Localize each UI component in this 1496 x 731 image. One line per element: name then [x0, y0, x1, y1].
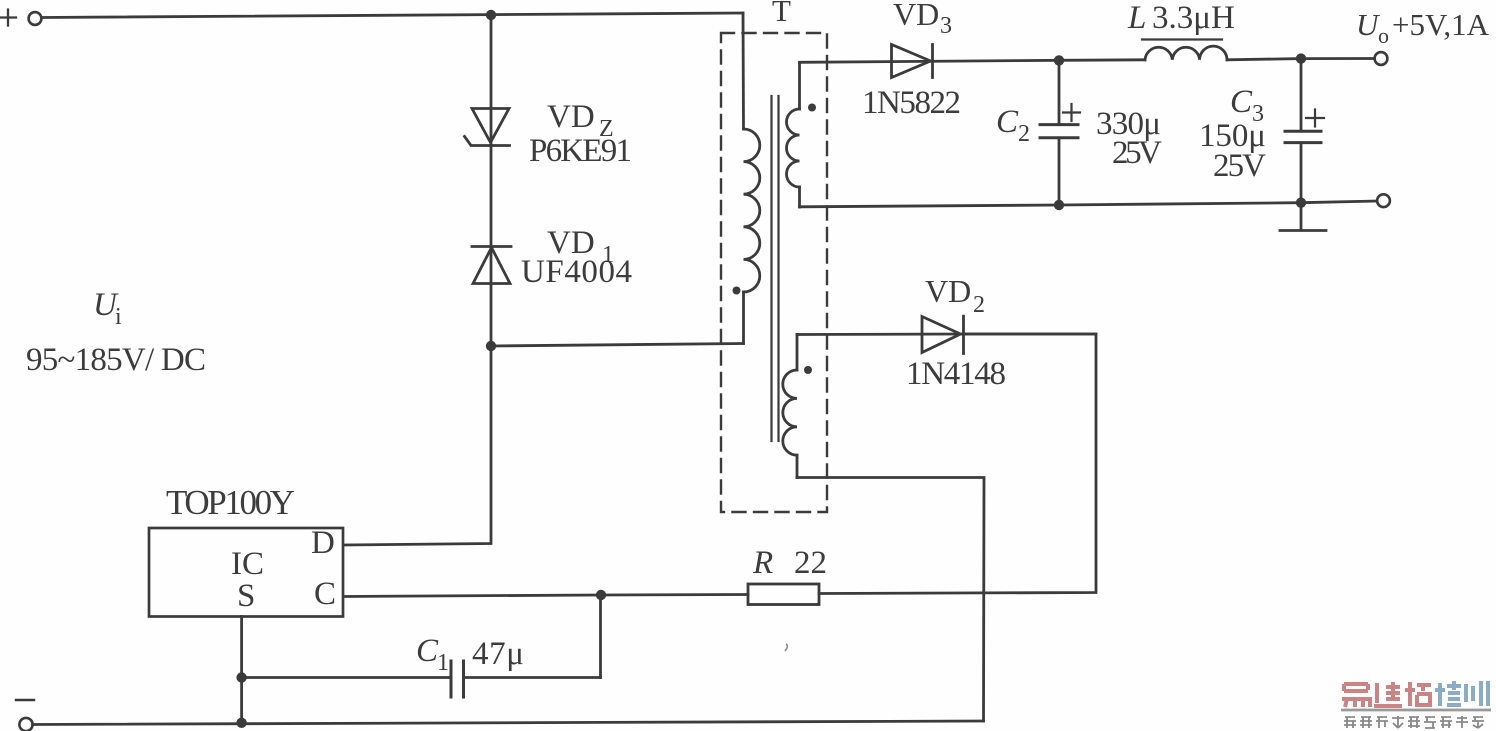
wire to transformer primary bottom: [491, 344, 744, 347]
node top junction: [486, 10, 496, 20]
watermark slogan row: [1344, 716, 1484, 728]
svg-text:P6KE91: P6KE91: [529, 133, 632, 169]
svg-text:25V: 25V: [1213, 148, 1266, 184]
svg-text:1N5822: 1N5822: [862, 85, 961, 121]
resistor R: [748, 584, 819, 605]
label C2: [996, 104, 1030, 147]
label Ui: [93, 287, 122, 330]
svg-text:C: C: [314, 576, 336, 612]
svg-text:+5V,1A: +5V,1A: [1392, 7, 1490, 42]
svg-text:TOP100Y: TOP100Y: [166, 483, 295, 522]
label 150u 25V: [1199, 118, 1266, 184]
secondary phase dot: [808, 104, 816, 112]
svg-text:2: 2: [973, 292, 985, 318]
wire top rail: [42, 13, 744, 18]
svg-text:C: C: [1230, 84, 1253, 120]
watermark underline: [1341, 709, 1491, 712]
wire VDz branch: [490, 15, 493, 346]
svg-text:22: 22: [794, 545, 827, 581]
wire feedback bottom to down wire: [797, 478, 984, 722]
output negative terminal: [1377, 194, 1390, 207]
label VD1: [547, 225, 614, 268]
feedback phase dot: [804, 366, 812, 374]
inductor L: [1145, 46, 1227, 60]
node C2 top: [1054, 55, 1064, 65]
node C3 bottom: [1296, 198, 1306, 208]
label R 22: [752, 545, 827, 581]
node C2 bottom: [1054, 200, 1064, 210]
wire to output terminal: [1301, 57, 1375, 60]
ground stub under C3: [1280, 203, 1326, 231]
label C1: [416, 633, 449, 676]
label 330u 25V: [1096, 106, 1162, 171]
wire output bottom rail: [800, 201, 1378, 207]
wire to IC drain pin: [344, 346, 492, 545]
node S bottom junction: [236, 718, 246, 728]
label VDz: [547, 99, 614, 142]
svg-text:C: C: [996, 104, 1019, 140]
svg-text:2: 2: [1018, 121, 1030, 147]
transformer T dashed box: [721, 33, 827, 512]
wire C pin to R: [344, 595, 749, 597]
label Uo +5V,1A: [1356, 7, 1490, 48]
wire to inductor: [1059, 58, 1145, 61]
primary phase dot: [733, 287, 741, 295]
node junction below VD1: [486, 341, 496, 351]
wire bottom rail: [33, 721, 984, 725]
svg-text:C: C: [416, 633, 439, 669]
svg-text:3.3μH: 3.3μH: [1152, 0, 1235, 36]
svg-text:47μ: 47μ: [472, 636, 524, 672]
diode VD3: [892, 45, 933, 78]
scan speck: [785, 644, 787, 651]
output positive terminal: [1375, 52, 1388, 65]
svg-text:VD: VD: [547, 99, 595, 135]
diode VD2: [922, 316, 964, 353]
transformer secondary winding: [787, 63, 800, 208]
label VD3: [893, 0, 952, 39]
svg-text:25V: 25V: [1112, 135, 1162, 171]
wire secondary to VD3: [800, 60, 1060, 62]
node control junction: [596, 590, 606, 600]
svg-text:VD: VD: [893, 0, 939, 32]
svg-text:D: D: [311, 525, 335, 561]
transformer feedback winding: [783, 335, 797, 478]
label underline: [1142, 38, 1222, 40]
svg-text:IC: IC: [231, 546, 264, 582]
svg-text:1: 1: [437, 650, 449, 676]
svg-text:R: R: [752, 545, 773, 581]
capacitor C3: [1285, 59, 1324, 203]
svg-text:VD: VD: [925, 273, 971, 309]
svg-text:3: 3: [940, 13, 952, 39]
watermark red characters: [1342, 682, 1431, 707]
terminal plus input: [0, 10, 41, 26]
label C3: [1230, 84, 1264, 127]
capacitor C1: [242, 595, 601, 697]
capacitor C2: [1040, 60, 1080, 205]
IC TOP100Y box: [149, 528, 343, 617]
node C3 top: [1296, 53, 1306, 63]
svg-text:UF4004: UF4004: [521, 254, 632, 290]
node S-C1 junction: [236, 672, 246, 682]
wire inductor to C3 node: [1227, 59, 1301, 60]
zener diode VDz: [465, 109, 510, 146]
label L 3.3uH: [1127, 0, 1235, 36]
svg-text:T: T: [772, 0, 791, 28]
transformer core: [772, 96, 779, 441]
svg-text:L: L: [1127, 0, 1146, 36]
svg-text:1N4148: 1N4148: [906, 356, 1006, 392]
svg-text:95~185V/ DC: 95~185V/ DC: [26, 342, 206, 378]
wire S pin down: [240, 617, 243, 724]
label VD2: [925, 273, 985, 318]
svg-text:S: S: [237, 578, 255, 614]
transformer primary winding: [743, 13, 760, 344]
wire VD2 to right then down: [819, 334, 1096, 594]
wire feedback top to VD2: [797, 333, 1096, 336]
terminal minus input: [16, 700, 34, 731]
svg-text:i: i: [115, 304, 122, 330]
svg-text:o: o: [1378, 23, 1389, 48]
diode VD1: [472, 247, 511, 284]
watermark blue characters: [1435, 681, 1488, 706]
